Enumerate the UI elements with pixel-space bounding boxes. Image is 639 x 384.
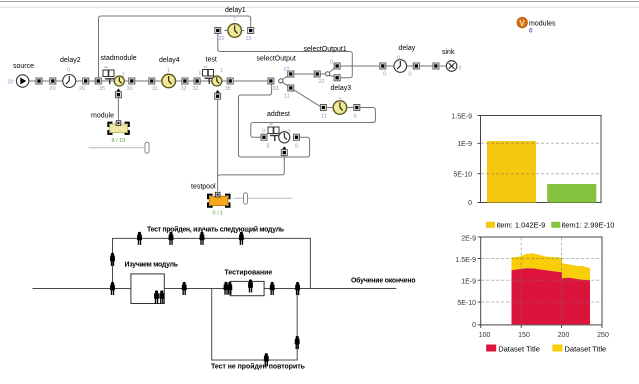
box study module [131,274,164,304]
wire delay3 stubs [327,107,334,109]
node port stadmodule.in [95,78,101,84]
node port delay2.in [50,78,56,84]
test [199,57,223,87]
svg-text:0: 0 [468,200,472,207]
svg-text:0: 0 [67,68,70,74]
svg-text:15: 15 [246,36,252,42]
svg-text:V: V [519,19,525,28]
svg-text:6: 6 [199,71,202,77]
node port delay3.out [354,105,360,111]
legend [486,222,495,228]
stadmodule [101,55,137,86]
node port selectOutput1.outT [334,63,340,69]
wire delay3 to addtest loop [251,108,376,138]
node port selectOutput.outT [288,71,294,77]
svg-text:6: 6 [354,114,357,120]
node port selectOutput1.in [314,71,320,77]
svg-text:source: source [13,63,34,70]
svg-text:33: 33 [127,86,133,92]
svg-text:20: 20 [50,86,56,92]
svg-text:200: 200 [558,332,570,339]
node port addtest.out [294,134,300,140]
svg-text:sink: sink [442,49,455,56]
node port delay4.out [182,78,188,84]
selectOutput1 [304,46,347,76]
svg-text:20: 20 [8,80,14,86]
area yellow [512,253,591,280]
node port test.out [227,78,233,84]
svg-text:0: 0 [409,72,412,78]
svg-text:Dataset Title: Dataset Title [565,344,607,353]
delay3 [331,85,352,114]
node port delay4.in [149,78,155,84]
svg-text:8 / 10: 8 / 10 [112,138,126,144]
plot border [481,116,602,203]
wire [0,6,639,8]
node port stadmodule.out [129,78,135,84]
svg-text:Изучаем модуль: Изучаем модуль [125,262,178,269]
svg-text:Dataset Title: Dataset Title [498,344,540,353]
svg-text:delay4: delay4 [159,57,180,64]
box testing [230,281,264,295]
svg-text:150: 150 [518,332,530,339]
svg-text:1.5E-9: 1.5E-9 [455,257,476,264]
svg-text:11: 11 [321,114,327,120]
wire top loop [113,238,311,288]
svg-text:7: 7 [233,18,236,24]
wire selectOutput lower to delay3 [293,90,320,107]
svg-text:item: 1.042E-9: item: 1.042E-9 [497,220,546,229]
svg-text:0: 0 [459,66,462,72]
bar item yellow [487,141,536,203]
wire bottom loop [212,289,298,361]
svg-text:1E-9: 1E-9 [457,141,472,148]
svg-text:module: module [91,113,114,120]
svg-text:100: 100 [479,332,491,339]
svg-text:••: •• [269,122,273,128]
svg-text:0: 0 [529,28,533,35]
node port delay1.out [248,28,254,34]
svg-text:Тестирование: Тестирование [225,270,273,277]
svg-text:testpool: testpool [191,184,216,191]
wire addtest out return loop [239,85,310,158]
svg-text:0 / 1: 0 / 1 [213,211,224,217]
delay [394,45,416,72]
wire [0,1,639,3]
wire main chain y=81 [29,80,63,82]
node port test.in [194,78,200,84]
svg-text:Тест пройден, изучать следующи: Тест пройден, изучать следующий модуль [147,226,284,234]
svg-text:0: 0 [397,56,400,62]
svg-text:0: 0 [262,129,265,135]
svg-text:1.5E-9: 1.5E-9 [451,114,472,121]
svg-text:Тест не пройден повторить: Тест не пройден повторить [211,363,305,371]
svg-text:••: •• [104,65,108,71]
node port test.res [215,90,219,93]
delay4 [159,57,180,88]
delay1 [225,7,246,37]
svg-text:22: 22 [319,79,325,85]
module slider [89,142,149,153]
gridlines [481,258,601,260]
ticks [478,115,481,117]
bar item1 green [547,184,596,203]
svg-text:22: 22 [219,36,225,42]
node port delay.in [380,63,386,69]
wire selectOutput1 to delay [341,65,380,67]
node port addtest.in [261,134,267,140]
wire delay to sink [407,65,433,67]
svg-text:32: 32 [181,86,187,92]
wire main line [33,288,397,290]
wire selectOutput diag down [283,82,289,86]
svg-text:modules: modules [529,21,556,28]
svg-text:5E-10: 5E-10 [457,300,476,307]
svg-text:1: 1 [220,68,223,74]
svg-text:0: 0 [472,322,476,329]
gridlines [481,142,601,144]
delay2 [60,57,81,88]
svg-text:3: 3 [338,97,341,103]
svg-text:35: 35 [225,86,231,92]
wire addtest to testpool [218,156,285,177]
testpool slider [234,193,292,205]
node port sink.in [433,63,439,69]
source [8,63,35,87]
wire selectOutput1 lower to delay1 [218,34,352,78]
svg-text:Обучение окончено: Обучение окончено [351,277,415,285]
wire test to testpool [217,100,219,192]
svg-text:delay3: delay3 [331,85,352,92]
svg-text:31: 31 [152,86,158,92]
svg-text:stadmodule: stadmodule [101,55,137,62]
svg-text:item1: 2.99E-10: item1: 2.99E-10 [562,220,615,229]
node port source.out [36,78,42,84]
svg-text:20: 20 [79,86,85,92]
svg-text:2E-9: 2E-9 [461,236,476,243]
wire selectOutput upper branch [294,73,313,75]
svg-text:delay1: delay1 [225,7,246,14]
person icons [137,232,142,245]
svg-text:35: 35 [99,86,105,92]
wire selectOutput1 diag down [329,76,334,77]
node port delay1.in [215,28,221,34]
sink [442,49,462,72]
node port delay2.out [83,78,89,84]
svg-text:selectOutput: selectOutput [257,56,296,63]
svg-text:8: 8 [295,144,298,150]
svg-text:1: 1 [167,68,170,74]
svg-text:test: test [206,57,217,64]
svg-text:33: 33 [273,86,279,92]
legend [486,345,496,352]
modules value widget [517,17,556,34]
node port stadmodule.res [116,88,120,91]
wire delay1 top loop [99,16,251,78]
svg-text:1E-9: 1E-9 [461,278,476,285]
node port delay.out [413,63,419,69]
svg-text:11: 11 [284,94,290,100]
node port selectOutput1.outF [334,75,340,81]
wire selectOutput1 diag up [330,68,335,72]
svg-text:delay: delay [399,45,416,52]
svg-text:selectOutput1: selectOutput1 [304,46,347,53]
svg-text:0: 0 [383,72,386,78]
svg-text:••: •• [204,65,208,71]
node port delay3.in [320,105,326,111]
ticks [478,236,481,238]
selectOutput [257,56,296,83]
svg-text:addtest: addtest [267,111,290,118]
svg-text:32: 32 [193,86,199,92]
module [91,113,129,145]
svg-text:delay2: delay2 [60,57,81,64]
svg-text:8: 8 [267,144,270,150]
svg-text:0: 0 [330,60,333,66]
svg-text:250: 250 [597,332,609,339]
addtest [262,111,291,143]
wire selectOutput diag up [283,76,289,80]
testpool [191,184,230,217]
node port selectOutput.outF [288,85,294,91]
wire stadmodule to module [117,98,119,121]
wire delay1 stubs [224,30,228,32]
node port selectOutput.in [268,78,274,84]
area red [512,268,591,324]
svg-text:2: 2 [122,73,125,79]
svg-text:22: 22 [284,67,290,73]
node port addtest.res [282,146,286,149]
svg-text:5E-10: 5E-10 [453,171,472,178]
